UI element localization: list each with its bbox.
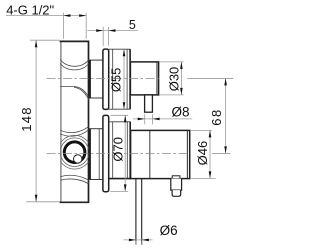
dim O70 — [110, 115, 128, 191]
centerline bottom unit — [47, 152, 231, 154]
centerline top unit — [47, 77, 234, 79]
svg-text:Ø46: Ø46 — [195, 141, 210, 166]
set screw circle — [74, 155, 82, 163]
valve body — [60, 41, 88, 202]
dim O6 pipe — [123, 240, 152, 245]
svg-text:5: 5 — [129, 18, 136, 32]
neck junction bar top — [89, 60, 91, 98]
svg-text:4-G 1/2": 4-G 1/2" — [6, 3, 54, 18]
top dome sleeve — [109, 49, 131, 109]
dim O30 — [159, 62, 183, 95]
bottom neck — [89, 129, 103, 180]
dim 5 plate thickness — [87, 27, 138, 46]
dim O8 stub — [133, 114, 192, 124]
top neck — [89, 60, 103, 98]
dim 68 spacing — [225, 78, 227, 153]
outlet fitting under bottom knob — [171, 176, 182, 197]
svg-text:Ø8: Ø8 — [172, 105, 190, 120]
outlet stub under top knob — [145, 95, 153, 112]
svg-text:Ø70: Ø70 — [111, 137, 126, 162]
dim O46 — [190, 130, 216, 178]
bottom dome sleeve — [109, 122, 131, 179]
dim 148 body height — [26, 40, 60, 202]
neck junction bar bottom — [89, 129, 91, 180]
svg-text:Ø6: Ø6 — [160, 223, 178, 238]
body waist curves top cartridge — [60, 59, 88, 99]
top escutcheon plate — [103, 49, 109, 109]
body waist curves bottom cartridge — [60, 126, 88, 183]
dim O55 — [123, 49, 125, 109]
svg-text:Ø30: Ø30 — [166, 67, 181, 92]
outlet port ring — [64, 142, 85, 163]
drop pipe — [136, 179, 142, 245]
bottom escutcheon plate — [103, 115, 109, 191]
dim 4-G 1/2 — [6, 13, 86, 39]
svg-text:Ø55: Ø55 — [109, 68, 124, 93]
bottom knob cylinder — [131, 130, 190, 178]
top knob cylinder — [130, 62, 158, 95]
svg-text:68: 68 — [209, 108, 224, 125]
svg-text:148: 148 — [19, 106, 34, 132]
